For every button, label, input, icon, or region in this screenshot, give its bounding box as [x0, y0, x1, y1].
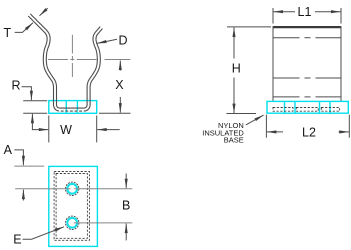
H arrow up: [233, 28, 235, 59]
leader D with arrow: [97, 39, 117, 43]
L2 arrow left: [267, 131, 283, 133]
nylon base (front view, cyan): [49, 101, 97, 114]
A arrow up: [22, 190, 24, 201]
base bottom extension line (X): [99, 112, 131, 114]
B arrow down: [125, 174, 127, 189]
H extension line bottom: [227, 113, 257, 115]
chain line 2: [273, 77, 341, 79]
center line upper hole: [15, 188, 132, 190]
svg-text:A: A: [4, 143, 13, 157]
body right edge: [340, 26, 342, 101]
svg-text:L1: L1: [298, 5, 312, 19]
L2 extension line right: [348, 115, 350, 138]
W extension line left: [48, 116, 50, 143]
svg-text:E: E: [13, 233, 21, 247]
nylon base (bottom view, cyan): [49, 166, 98, 246]
R extension line bottom: [23, 112, 47, 114]
svg-text:T: T: [3, 26, 11, 40]
R arrow up / W left arrow combined: [32, 114, 48, 130]
mounting hole lower: [66, 216, 79, 229]
svg-text:W: W: [60, 123, 72, 137]
hidden tab 1 (side view): [273, 108, 293, 112]
body left edge: [272, 26, 274, 101]
center line horizontal (front view): [48, 59, 130, 61]
hidden metal outline (bottom view, dashed double rect): [54, 172, 89, 241]
L1 extension line left: [272, 8, 274, 24]
nylon insulated base note: [202, 121, 244, 145]
H arrow down: [233, 78, 235, 114]
hidden tab 2 (side view): [296, 108, 318, 112]
center line lower hole: [74, 222, 133, 224]
leader E with arrow: [23, 227, 65, 239]
L2 extension line left: [265, 115, 267, 138]
nylon base (side view, cyan): [267, 101, 348, 113]
mounting hole upper: [66, 182, 79, 195]
hidden tab 3 (side view): [321, 108, 339, 112]
base top extension line (A): [14, 165, 44, 167]
svg-text:L2: L2: [302, 126, 316, 140]
L1 arrow right: [315, 11, 341, 13]
L1 extension line right: [340, 8, 342, 24]
chain line 1: [273, 37, 341, 39]
svg-text:D: D: [118, 33, 127, 47]
svg-text:B: B: [122, 198, 130, 212]
L2 arrow right: [339, 131, 349, 133]
leader A with arrow: [14, 150, 23, 165]
svg-text:H: H: [232, 62, 241, 76]
svg-text:X: X: [115, 78, 124, 92]
R extension line top: [23, 100, 47, 102]
L1 arrow left: [274, 11, 296, 13]
H extension line top: [227, 26, 271, 28]
center line vertical (front view): [71, 35, 73, 77]
B arrow up: [125, 224, 127, 241]
leader R with arrow: [22, 87, 32, 101]
chain line 3: [273, 96, 341, 98]
X dim arrow up: [119, 61, 121, 71]
leader nylon base note: [246, 115, 264, 125]
svg-text:BASE: BASE: [224, 136, 244, 145]
arrow T upper: [40, 8, 48, 16]
W extension line right: [96, 116, 98, 143]
hidden tab edge gaps in clip bottom (front view): [59, 110, 85, 112]
W dim line right arrow: [97, 129, 120, 131]
leader T with arrow: [15, 23, 33, 33]
body top edge: [273, 26, 341, 28]
fuse clip (front view metal outline): [28, 14, 102, 111]
X dim arrow down: [119, 97, 121, 113]
svg-text:R: R: [11, 79, 20, 93]
